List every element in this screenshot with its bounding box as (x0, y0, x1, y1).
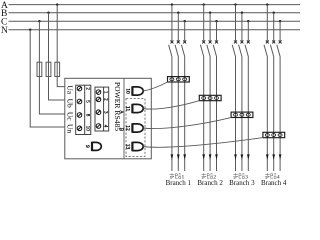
arrow branch1 pole C (183, 154, 186, 159)
node tap branch3 pole A (234, 3, 236, 5)
node tap branch1 pole B (177, 12, 179, 14)
wire branch3 pole B upper (241, 13, 243, 41)
wire branch1 pole B upper (177, 13, 179, 41)
breaker contact x mark (177, 40, 180, 43)
svg-text:Ua: Ua (66, 85, 75, 94)
breaker contact x mark (234, 40, 237, 43)
node tap branch1 pole A (171, 3, 173, 5)
arrow branch2 pole C (215, 154, 218, 159)
label zhilu 1 (170, 173, 181, 179)
label zhilu 3 (233, 173, 244, 179)
wire branch4 pole C lower (279, 57, 281, 172)
svg-text:10: 10 (84, 126, 89, 132)
breaker contact x mark (272, 40, 275, 43)
breaker blade (207, 45, 210, 57)
breaker contact x mark (215, 40, 218, 43)
wire CT input 13 to TA4 (143, 138, 263, 148)
node tap A (left drop) (56, 3, 58, 5)
breaker blade (181, 45, 184, 57)
breaker contact x mark (240, 40, 243, 43)
terminal strip2 row 4 (96, 124, 101, 129)
breaker contact x mark (266, 40, 269, 43)
breaker contact x mark (247, 40, 250, 43)
wire branch1 pole C upper (184, 21, 186, 41)
wire branch2 pole B upper (209, 13, 211, 41)
breaker contact x mark (170, 40, 173, 43)
node tap branch3 pole C (247, 20, 249, 22)
node tap branch4 pole B (273, 12, 275, 14)
arrow branch3 pole B (241, 154, 244, 159)
wire branch4 pole A upper (266, 5, 268, 41)
arrow branch4 pole C (279, 154, 282, 159)
wire CT input 10 to TA1 (143, 82, 168, 91)
wire branch3 pole C lower (247, 57, 249, 172)
node tap branch4 pole C (279, 20, 281, 22)
svg-text:POWER RS485: POWER RS485 (113, 82, 122, 131)
wire branch1 pole B lower (177, 57, 179, 172)
fuse FA (55, 62, 60, 76)
svg-text:Branch 1: Branch 1 (166, 179, 192, 187)
node tap N (left drop) (29, 29, 31, 31)
node tap branch2 pole A (203, 3, 205, 5)
breaker blade (200, 45, 203, 57)
node tap C (left drop) (38, 20, 40, 22)
arrow branch4 pole A (266, 154, 269, 159)
wire branch4 pole C upper (279, 21, 281, 41)
wire branch3 pole A lower (235, 57, 237, 172)
arrow branch1 pole A (171, 154, 174, 159)
svg-text:N: N (1, 26, 8, 36)
svg-text:Branch 2: Branch 2 (197, 179, 223, 187)
CT input 9 (91, 142, 93, 151)
CT input 10 (131, 86, 133, 95)
terminal strip 2 (aux/RS485) (95, 87, 109, 131)
fuse FB (46, 62, 51, 76)
terminal strip1 row 2 (77, 99, 82, 104)
svg-text:Branch 3: Branch 3 (229, 179, 255, 187)
wire branch1 pole C lower (184, 57, 186, 172)
dashed CT-module box (126, 99, 145, 157)
terminal strip 1 (voltage inputs) (76, 85, 91, 134)
svg-text:13: 13 (125, 144, 131, 150)
node tap branch3 pole B (241, 12, 243, 14)
arrow branch4 pole B (272, 154, 275, 159)
arrow branch3 pole C (247, 154, 250, 159)
wire branch3 pole B lower (241, 57, 243, 172)
node tap branch2 pole C (215, 20, 217, 22)
svg-text:Uc: Uc (66, 112, 75, 121)
arrow branch2 pole B (209, 154, 212, 159)
wire Un drop (30, 30, 65, 127)
breaker blade (169, 45, 172, 57)
CT input 13 (131, 142, 133, 151)
breaker blade (232, 45, 235, 57)
node tap branch2 pole B (209, 12, 211, 14)
meter internal divider (123, 78, 125, 159)
node tap branch1 pole C (184, 20, 186, 22)
terminal strip1 row 1 (77, 86, 82, 91)
wire branch3 pole A upper (235, 5, 237, 41)
wire branch2 pole C lower (216, 57, 218, 172)
breaker blade (239, 45, 242, 57)
terminal strip2 row 1 (96, 90, 101, 95)
svg-text:10: 10 (125, 88, 131, 94)
breaker blade (245, 45, 248, 57)
CT block TA4 (263, 132, 285, 137)
breaker blade (270, 45, 273, 57)
label zhilu 2 (202, 173, 213, 179)
breaker contact x mark (202, 40, 205, 43)
CT block TA1 (168, 77, 190, 82)
terminal strip1 row 3 (77, 113, 82, 118)
svg-text:11: 11 (125, 106, 131, 112)
wire branch4 pole A lower (266, 57, 268, 172)
wire branch3 pole C upper (247, 21, 249, 41)
wire CT input 12 to TA3 (143, 117, 231, 128)
fuse FC (37, 62, 42, 76)
node tap branch4 pole A (266, 3, 268, 5)
CT block TA2 (199, 95, 221, 100)
wire Ua drop (57, 5, 65, 87)
breaker contact x mark (209, 40, 212, 43)
wire branch1 pole A lower (171, 57, 173, 172)
terminal strip2 row 2 (96, 97, 101, 102)
wire Ub drop (49, 13, 65, 100)
breaker blade (277, 45, 280, 57)
svg-text:12: 12 (125, 125, 131, 131)
wire branch2 pole A lower (203, 57, 205, 172)
wire branch4 pole B upper (273, 13, 275, 41)
wire CT input 11 to TA2 (143, 101, 199, 109)
breaker blade (264, 45, 267, 57)
arrow branch2 pole A (202, 154, 205, 159)
terminal strip2 row 3 (96, 110, 101, 115)
svg-text:A: A (118, 110, 124, 114)
breaker contact x mark (183, 40, 186, 43)
breaker contact x mark (279, 40, 282, 43)
breaker blade (175, 45, 178, 57)
svg-text:9: 9 (84, 145, 90, 148)
arrow branch1 pole B (177, 154, 180, 159)
wire branch2 pole B lower (209, 57, 211, 172)
CT input 11 (131, 104, 133, 113)
wire branch2 pole A upper (203, 5, 205, 41)
terminal strip1 row 4 (77, 126, 82, 131)
CT block TA3 (231, 112, 253, 117)
svg-text:B: B (118, 128, 124, 132)
svg-text:Ub: Ub (66, 99, 75, 108)
wire branch2 pole C upper (216, 21, 218, 41)
svg-text:Branch 4: Branch 4 (261, 179, 287, 187)
arrow branch3 pole A (234, 154, 237, 159)
wire branch1 pole A upper (171, 5, 173, 41)
breaker blade (213, 45, 216, 57)
label zhilu 4 (265, 173, 276, 179)
wire Uc drop (39, 21, 64, 114)
wire branch4 pole B lower (273, 57, 275, 172)
CT input 12 (131, 123, 133, 132)
node tap B (left drop) (47, 12, 49, 14)
svg-text:Un: Un (66, 124, 75, 133)
power meter U1 outline (65, 78, 152, 159)
